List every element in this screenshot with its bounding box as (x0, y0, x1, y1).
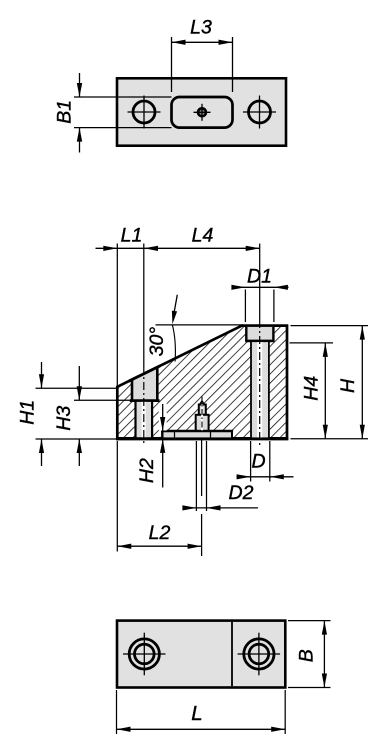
dimension D1 (231, 266, 288, 322)
dimension H (291, 326, 369, 439)
bottom view right hole (238, 633, 281, 676)
svg-text:L: L (191, 702, 202, 725)
svg-text:D1: D1 (247, 266, 272, 288)
left hole counterbore pocket (129, 366, 160, 401)
bottom view left hole (123, 633, 166, 676)
dimension L2 (117, 441, 201, 556)
svg-text:B: B (296, 649, 318, 662)
top view right hole (243, 96, 276, 129)
svg-text:30°: 30° (146, 327, 168, 357)
dimension H2 (136, 403, 167, 488)
svg-text:H2: H2 (136, 458, 158, 483)
top view slot (172, 97, 233, 128)
svg-text:H: H (337, 378, 359, 393)
svg-text:L4: L4 (192, 224, 214, 246)
top view left hole (128, 96, 161, 129)
dimension L (117, 690, 286, 734)
grub screw (196, 397, 209, 435)
dimension H3 (53, 366, 131, 466)
svg-text:L2: L2 (149, 522, 171, 544)
svg-text:H4: H4 (301, 376, 323, 401)
dimension 30 degrees (146, 295, 243, 362)
dimension H4 (290, 343, 334, 439)
right hole bore (251, 341, 269, 438)
top view body (117, 78, 286, 145)
dimension B (288, 621, 331, 688)
bottom view division line (231, 622, 233, 686)
dimension L1 L4 (96, 224, 260, 387)
svg-text:B1: B1 (54, 100, 76, 124)
dimension L3 (172, 17, 233, 92)
svg-text:D: D (252, 451, 266, 473)
dimension B1 (54, 73, 172, 153)
right hole centerline (259, 244, 261, 447)
right hole counterbore (245, 327, 274, 341)
bottom view body (117, 621, 285, 688)
svg-text:L3: L3 (190, 17, 212, 39)
left hole centerline (143, 244, 145, 444)
left threaded hole (136, 401, 153, 438)
svg-text:D2: D2 (229, 482, 254, 504)
top view slot center hole (194, 104, 211, 121)
svg-text:L1: L1 (121, 224, 143, 246)
svg-text:H3: H3 (53, 406, 75, 431)
svg-text:H1: H1 (17, 400, 39, 425)
dimension D (237, 441, 294, 482)
dimension H1 (17, 362, 116, 466)
section body outline with hatching (116, 326, 288, 439)
dimension D2 (182, 438, 258, 511)
bottom recess (161, 431, 233, 438)
